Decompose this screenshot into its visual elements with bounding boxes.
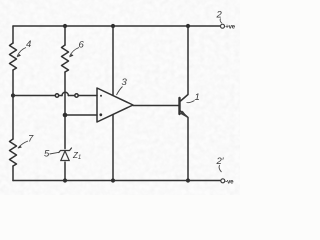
transistor 1 base bar [178, 98, 180, 114]
svg-text:1: 1 [195, 92, 200, 103]
wire link right [68, 95, 74, 97]
paper background [0, 0, 240, 195]
junction dot top rail / rail2 [63, 24, 67, 28]
wire divider tap [13, 95, 55, 97]
svg-text:-ve: -ve [225, 178, 234, 185]
svg-text:7: 7 [28, 134, 34, 145]
wire link left [59, 95, 62, 97]
op-amp 3 triangle [97, 88, 133, 122]
junction dot top rail / collector [186, 24, 190, 28]
arrowhead leader 4 [17, 54, 21, 57]
wire left rail middle [12, 70, 14, 139]
svg-text:+ve: +ve [225, 24, 235, 31]
junction dot left rail / tap [11, 93, 15, 97]
wire op-amp output [133, 105, 179, 107]
junction dot bottom rail / rail2 [63, 178, 67, 182]
wire rail2 upper [64, 26, 66, 45]
junction dot bottom rail / op-amp power [111, 178, 115, 182]
crossover hop [62, 92, 68, 95]
link terminal circle right [75, 94, 78, 97]
svg-text:3: 3 [122, 77, 128, 88]
leader for label 5 [50, 152, 60, 154]
leader for label 6 [70, 48, 80, 57]
op-amp non-inverting input dot [100, 95, 102, 97]
wire left rail lower [12, 166, 14, 181]
resistor 7 [10, 139, 17, 166]
link terminal circle left [55, 94, 58, 97]
zener Z1 cathode bar [59, 148, 72, 153]
leader for label 2' [219, 165, 221, 172]
junction dot top rail / op-amp power [111, 24, 115, 28]
wire rail2 middle [64, 72, 66, 149]
svg-text:6: 6 [79, 40, 85, 51]
svg-text:4: 4 [26, 39, 31, 50]
arrowhead leader 7 [18, 146, 22, 149]
op-amp bottom power wire [112, 115, 114, 181]
wire left rail upper [12, 26, 14, 43]
svg-text:2: 2 [216, 10, 223, 21]
leader for label 1 [187, 101, 195, 103]
leader for label 2 [220, 19, 222, 24]
svg-text:2′: 2′ [216, 156, 225, 167]
leader for label 4 [17, 48, 26, 57]
zener Z1 triangle [61, 151, 69, 161]
resistor 6 [62, 45, 69, 72]
junction dot bottom rail / emitter [186, 178, 190, 182]
wire top rail [13, 25, 220, 27]
op-amp inverting input dot [99, 113, 102, 116]
op-amp top power wire [112, 26, 114, 95]
terminal 2 circle (+ve) [221, 24, 225, 28]
svg-text:5: 5 [44, 149, 50, 160]
terminal 2' circle (-ve) [221, 179, 225, 183]
wire bottom rail [13, 180, 220, 182]
wire rail2 lower [64, 162, 66, 181]
transistor 1 collector lead [181, 26, 189, 101]
transistor 1 emitter lead [181, 111, 189, 181]
arrowhead leader 6 [69, 54, 73, 57]
resistor 4 [10, 43, 17, 70]
wire to non-inverting input [78, 95, 97, 97]
leader for label 3 [117, 87, 123, 96]
junction dot rail2 / inverting wire [63, 113, 68, 118]
leader for label 7 [18, 141, 28, 148]
transistor 1 emitter arrow [180, 111, 188, 119]
wire to inverting input [65, 114, 97, 116]
